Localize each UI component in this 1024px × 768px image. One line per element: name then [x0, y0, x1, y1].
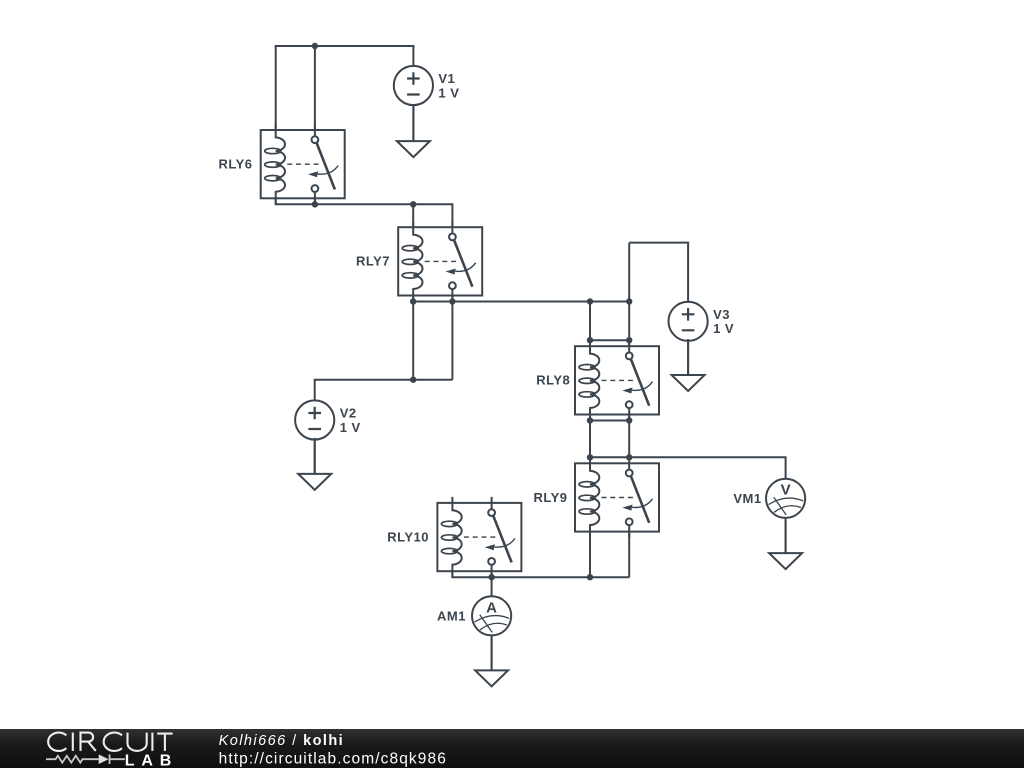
svg-text:RLY9: RLY9 — [533, 490, 567, 505]
wire to AM1 — [491, 562, 493, 597]
wire RLY8 bottom tie — [590, 414, 629, 457]
svg-text:RLY6: RLY6 — [218, 156, 252, 171]
wire V2 to ground — [314, 440, 316, 474]
wire top-left loop — [276, 46, 414, 131]
logo diode cathode bar and wire — [110, 754, 125, 764]
svg-text:1 V: 1 V — [340, 420, 361, 435]
svg-text:RLY10: RLY10 — [387, 529, 429, 544]
svg-text:V: V — [781, 481, 791, 498]
wire RLY7 bottom bus — [413, 295, 629, 302]
ground below V2 — [298, 438, 331, 490]
wire V3 to ground — [687, 341, 689, 375]
wire VM1 to ground — [785, 518, 787, 553]
logo letter C — [48, 733, 66, 751]
logo resistor zigzag — [46, 756, 99, 763]
wire V2 hookup — [315, 380, 453, 401]
relay RLY8 — [575, 340, 659, 420]
logo letter C — [104, 733, 122, 751]
svg-text:A: A — [486, 599, 497, 616]
ground below V1 — [397, 105, 430, 157]
wire RLY6 switch bottom lead — [314, 192, 316, 204]
relay RLY6 — [261, 124, 345, 204]
logo diode triangle — [99, 754, 109, 764]
ammeter AM1 — [472, 596, 511, 635]
relay RLY10 — [437, 497, 521, 577]
svg-text:RLY8: RLY8 — [536, 373, 570, 388]
wire V3 branch down to RLY8 — [628, 243, 630, 352]
wire RLY6 switch drop — [314, 46, 316, 133]
voltage source V1 — [394, 66, 433, 105]
wire RLY8 coil drop — [589, 302, 591, 347]
svg-text:AM1: AM1 — [437, 608, 466, 623]
wire RLY7 coil drop — [412, 204, 414, 228]
logo letter T — [157, 734, 172, 751]
svg-text:V2: V2 — [340, 406, 357, 421]
wire RLY6 bottom to RLY7 — [276, 197, 453, 228]
voltage source V2 — [295, 400, 334, 439]
svg-text:LAB: LAB — [125, 752, 172, 768]
footer bar — [0, 0, 1, 1]
wire V1 to ground — [412, 105, 414, 142]
svg-text:1 V: 1 V — [438, 85, 459, 100]
logo letter R — [81, 733, 96, 751]
voltage source V3 — [669, 302, 708, 341]
svg-text:VM1: VM1 — [733, 491, 761, 506]
logo letter I — [72, 733, 74, 751]
relay RLY7 — [398, 221, 482, 301]
svg-text:Kolhi666 / kolhi: Kolhi666 / kolhi — [219, 733, 345, 749]
wire RLY9 bottom leads — [590, 526, 629, 578]
voltmeter VM1 — [766, 479, 805, 518]
svg-text:1 V: 1 V — [713, 321, 734, 336]
svg-text:RLY7: RLY7 — [356, 254, 390, 269]
logo letter I — [151, 733, 153, 751]
wire bottom bus — [452, 571, 629, 578]
wire bus to V2 left branch — [413, 302, 452, 380]
logo letter U — [128, 733, 147, 751]
wire AM1 to ground — [491, 635, 493, 670]
ground below AM1 — [475, 634, 508, 686]
svg-text:V3: V3 — [713, 307, 730, 322]
ground below V3 — [672, 339, 705, 391]
ground below VM1 — [769, 517, 802, 569]
svg-text:V1: V1 — [438, 71, 455, 86]
relay RLY9 — [575, 457, 659, 537]
svg-text:http://circuitlab.com/c8qk986: http://circuitlab.com/c8qk986 — [219, 750, 447, 767]
wire RLY8 top tie — [590, 339, 629, 341]
node junction dots — [312, 43, 318, 49]
wire V3 loop — [629, 243, 688, 303]
wire to VM1 — [590, 457, 786, 479]
